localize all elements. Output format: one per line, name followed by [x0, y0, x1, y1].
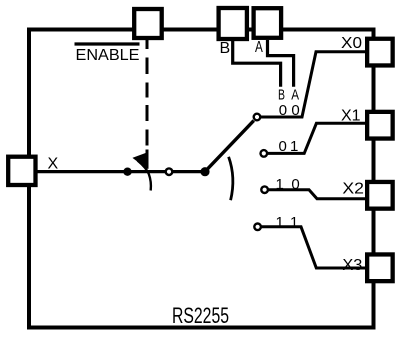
break contact (open circle) on X wire — [166, 168, 173, 175]
wire: contact 11 to X3 terminal — [261, 227, 369, 268]
svg-text:0: 0 — [291, 102, 299, 119]
svg-text:1: 1 — [290, 138, 298, 155]
wire: contact 00 to X0 terminal — [259, 52, 368, 117]
junction node on X wire — [123, 168, 131, 176]
terminal box X0 — [367, 39, 393, 66]
contact 10 circle — [261, 186, 268, 193]
contact 11 circle — [254, 224, 261, 231]
wiper travel arc — [229, 157, 233, 200]
svg-text:ENABLE: ENABLE — [76, 47, 140, 64]
svg-text:1: 1 — [276, 214, 284, 231]
wire: X input from left box to pivot — [35, 170, 206, 173]
dashed control line from ENABLE — [146, 38, 149, 49]
switch arm (wiper) — [205, 121, 254, 172]
pivot node of wiper — [200, 167, 209, 176]
wire: contact 10 to X2 terminal — [268, 190, 369, 199]
svg-text:X0: X0 — [341, 35, 362, 52]
ENABLE overline — [75, 42, 140, 45]
wire: contact 01 to X1 terminal — [267, 123, 369, 153]
svg-text:X: X — [48, 156, 59, 173]
terminal box X (left) — [8, 157, 35, 185]
arrow on control linkage — [134, 153, 148, 167]
terminal box X2 — [367, 182, 393, 209]
terminal box X3 — [367, 254, 393, 281]
svg-text:B: B — [220, 40, 231, 57]
curved actuator stroke through wire — [138, 161, 151, 191]
svg-text:0: 0 — [279, 102, 287, 119]
wire: A control from A box down-right-down — [268, 40, 294, 87]
svg-text:1: 1 — [276, 176, 284, 193]
svg-text:X1: X1 — [341, 107, 361, 124]
svg-text:RS2255: RS2255 — [172, 303, 229, 328]
terminal box ENABLE — [134, 9, 162, 38]
svg-text:1: 1 — [290, 214, 298, 231]
svg-text:X3: X3 — [342, 257, 362, 274]
svg-text:0: 0 — [279, 138, 287, 155]
chip outline border — [29, 30, 374, 328]
wire: B control from B box down-right-down — [233, 40, 281, 87]
contact 01 circle — [261, 150, 268, 157]
terminal box B — [219, 8, 247, 39]
svg-text:X2: X2 — [342, 180, 364, 197]
terminal box X1 — [367, 112, 393, 139]
svg-text:0: 0 — [291, 176, 299, 193]
contact 00 circle — [254, 114, 261, 121]
terminal box A — [254, 8, 282, 38]
svg-text:A: A — [255, 39, 263, 56]
